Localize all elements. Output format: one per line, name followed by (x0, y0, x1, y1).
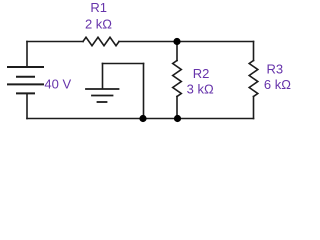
svg-text:R1: R1 (90, 0, 107, 15)
junction dot bottom of R2 (174, 115, 181, 122)
wire ground branch vertical to bottom rail (143, 64, 145, 119)
node A junction dot (top of R2) (173, 38, 180, 45)
junction dot ground at bottom rail (139, 115, 146, 122)
wire R3 top lead (253, 42, 255, 61)
resistor R2 (173, 61, 182, 97)
wire battery positive lead (26, 42, 28, 67)
wire battery negative lead (26, 94, 28, 119)
wire R2 bottom lead (176, 97, 178, 119)
wire top segment right (R1 to node A to R3) (119, 41, 254, 43)
wire bottom rail (27, 118, 254, 120)
resistor R3 (249, 61, 258, 97)
wire top segment left (battery + to R1) (27, 41, 83, 43)
battery 40 V (8, 67, 43, 93)
svg-text:R2: R2 (193, 66, 210, 81)
svg-text:R3: R3 (266, 61, 283, 76)
svg-text:6 kΩ: 6 kΩ (264, 77, 291, 92)
svg-text:3 kΩ: 3 kΩ (187, 82, 214, 97)
ground (86, 64, 119, 103)
wire R2 top lead (176, 42, 178, 61)
resistor R1 (83, 37, 119, 45)
svg-text:40 V: 40 V (44, 76, 71, 91)
wire R3 bottom lead (253, 97, 255, 119)
wire ground branch horizontal (103, 63, 144, 65)
svg-text:2 kΩ: 2 kΩ (85, 17, 112, 32)
